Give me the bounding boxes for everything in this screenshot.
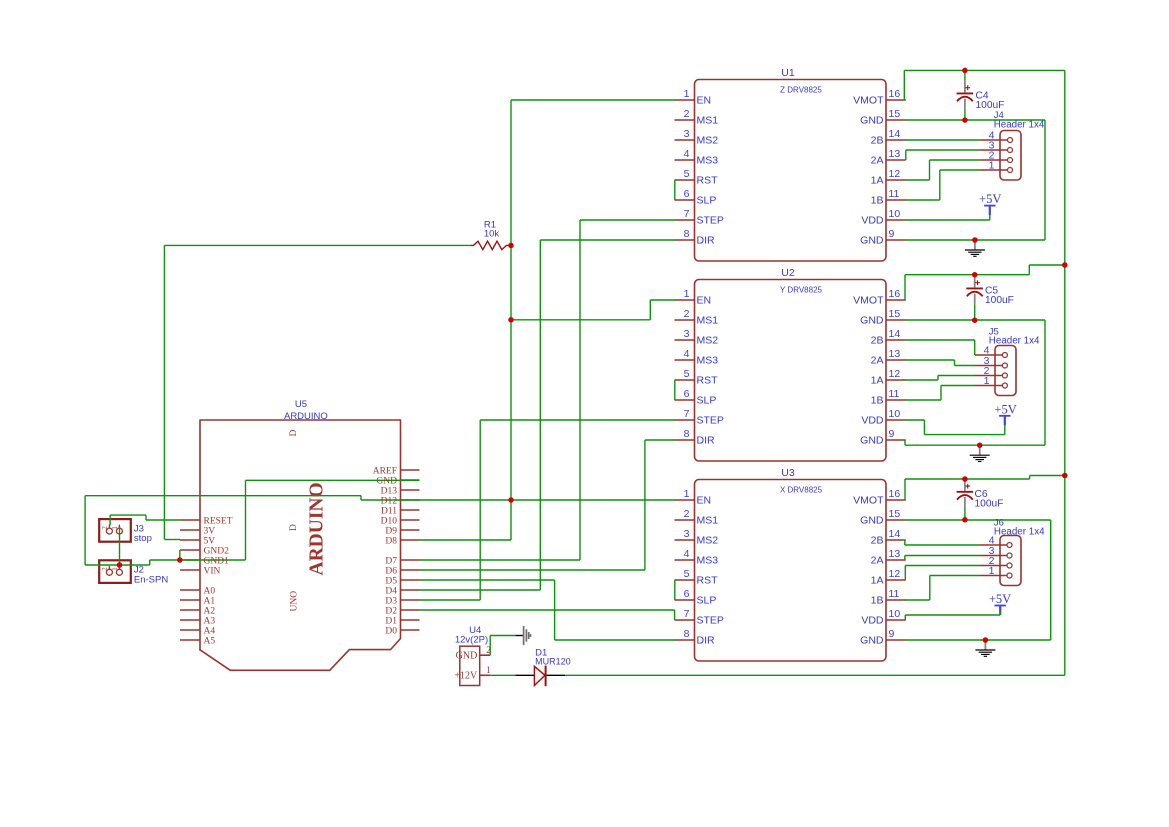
svg-text:A4: A4 [204, 626, 216, 636]
svg-text:7: 7 [684, 208, 690, 220]
svg-text:A1: A1 [204, 596, 216, 606]
svg-text:U5: U5 [295, 399, 307, 410]
svg-text:stop: stop [134, 533, 152, 544]
svg-text:10: 10 [889, 608, 901, 620]
svg-text:VDD: VDD [861, 615, 884, 627]
svg-text:1A: 1A [871, 375, 884, 387]
svg-text:GND: GND [860, 635, 884, 647]
svg-text:+12V: +12V [454, 671, 478, 682]
svg-text:9: 9 [889, 628, 895, 640]
svg-text:GND: GND [860, 315, 884, 327]
svg-text:6: 6 [684, 188, 690, 200]
svg-text:2: 2 [684, 508, 690, 520]
svg-text:+5V: +5V [989, 592, 1011, 606]
svg-text:8: 8 [684, 428, 690, 440]
svg-text:14: 14 [889, 328, 901, 340]
svg-text:3V: 3V [204, 526, 216, 536]
svg-text:D6: D6 [385, 566, 397, 576]
svg-text:1: 1 [684, 288, 690, 300]
svg-text:1: 1 [684, 488, 690, 500]
svg-text:DIR: DIR [697, 635, 716, 647]
svg-text:12: 12 [889, 168, 901, 180]
svg-text:EN: EN [697, 495, 712, 507]
svg-text:6: 6 [684, 388, 690, 400]
svg-text:2: 2 [101, 567, 109, 571]
svg-text:VDD: VDD [861, 215, 884, 227]
svg-text:4: 4 [684, 348, 690, 360]
svg-text:D1: D1 [385, 616, 397, 626]
svg-text:14: 14 [889, 528, 901, 540]
svg-text:MS1: MS1 [697, 315, 719, 327]
svg-text:SLP: SLP [697, 195, 717, 207]
svg-text:2: 2 [684, 308, 690, 320]
svg-text:STEP: STEP [697, 215, 724, 227]
svg-text:D13: D13 [381, 486, 398, 496]
svg-text:+5V: +5V [979, 192, 1001, 206]
svg-text:15: 15 [889, 308, 901, 320]
svg-text:1: 1 [684, 88, 690, 100]
svg-text:4: 4 [684, 548, 690, 560]
svg-text:VMOT: VMOT [853, 295, 884, 307]
svg-text:X DRV8825: X DRV8825 [780, 486, 823, 495]
svg-text:RESET: RESET [204, 516, 233, 526]
svg-text:EN: EN [697, 295, 712, 307]
svg-text:MS2: MS2 [697, 135, 719, 147]
svg-text:7: 7 [684, 608, 690, 620]
svg-text:D2: D2 [385, 606, 397, 616]
svg-text:A3: A3 [204, 616, 216, 626]
svg-text:1: 1 [111, 567, 119, 571]
svg-text:1: 1 [984, 375, 990, 387]
svg-text:15: 15 [889, 508, 901, 520]
svg-text:UNO: UNO [290, 591, 300, 612]
svg-text:STEP: STEP [697, 615, 724, 627]
svg-text:D5: D5 [385, 576, 397, 586]
svg-text:VIN: VIN [204, 566, 221, 576]
svg-text:GND: GND [860, 515, 884, 527]
svg-text:GND1: GND1 [204, 556, 230, 566]
svg-text:16: 16 [889, 88, 901, 100]
svg-text:MS1: MS1 [697, 115, 719, 127]
svg-text:5V: 5V [204, 536, 216, 546]
svg-text:U1: U1 [781, 67, 795, 79]
svg-text:1B: 1B [871, 395, 884, 407]
svg-text:3: 3 [684, 128, 690, 140]
svg-text:Y DRV8825: Y DRV8825 [780, 286, 823, 295]
svg-text:2A: 2A [871, 355, 884, 367]
svg-text:5: 5 [684, 168, 690, 180]
svg-text:En-SPN: En-SPN [134, 574, 168, 585]
svg-text:10: 10 [889, 208, 901, 220]
svg-text:GND: GND [376, 476, 397, 486]
svg-text:100uF: 100uF [975, 498, 1004, 509]
svg-text:MS2: MS2 [697, 535, 719, 547]
svg-text:GND: GND [860, 235, 884, 247]
svg-text:VDD: VDD [861, 415, 884, 427]
svg-text:Header 1x4: Header 1x4 [989, 336, 1040, 347]
svg-text:MS1: MS1 [697, 515, 719, 527]
svg-text:1: 1 [989, 565, 995, 577]
svg-text:RST: RST [697, 375, 719, 387]
svg-text:2: 2 [684, 108, 690, 120]
svg-text:A2: A2 [204, 606, 216, 616]
svg-text:15: 15 [889, 108, 901, 120]
svg-text:1A: 1A [871, 175, 884, 187]
svg-text:GND: GND [860, 115, 884, 127]
svg-text:Header 1x4: Header 1x4 [994, 527, 1045, 538]
svg-text:16: 16 [889, 488, 901, 500]
svg-text:13: 13 [889, 348, 901, 360]
svg-text:D9: D9 [385, 526, 397, 536]
svg-text:D11: D11 [381, 506, 397, 516]
svg-text:A0: A0 [204, 586, 216, 596]
svg-text:11: 11 [889, 388, 900, 400]
svg-text:DIR: DIR [697, 235, 716, 247]
svg-text:9: 9 [889, 428, 895, 440]
svg-text:MS3: MS3 [697, 555, 719, 567]
svg-text:12: 12 [889, 568, 901, 580]
svg-text:2B: 2B [871, 335, 884, 347]
svg-text:U2: U2 [781, 267, 795, 279]
svg-text:2: 2 [101, 526, 109, 530]
svg-text:U3: U3 [781, 467, 795, 479]
svg-text:2A: 2A [871, 155, 884, 167]
svg-text:MUR120: MUR120 [535, 657, 571, 667]
svg-text:VMOT: VMOT [853, 495, 884, 507]
svg-text:RST: RST [697, 575, 719, 587]
svg-text:2B: 2B [871, 135, 884, 147]
svg-text:1B: 1B [871, 595, 884, 607]
svg-text:6: 6 [684, 588, 690, 600]
svg-text:1: 1 [989, 160, 995, 172]
svg-text:5: 5 [684, 568, 690, 580]
svg-text:8: 8 [684, 228, 690, 240]
svg-text:1A: 1A [871, 575, 884, 587]
svg-text:MS2: MS2 [697, 335, 719, 347]
svg-text:D8: D8 [385, 536, 397, 546]
svg-text:Z DRV8825: Z DRV8825 [780, 86, 822, 95]
svg-text:D12: D12 [381, 496, 398, 506]
svg-text:3: 3 [684, 528, 690, 540]
svg-text:MS3: MS3 [697, 155, 719, 167]
svg-text:D: D [289, 524, 299, 531]
svg-text:3: 3 [684, 328, 690, 340]
svg-text:14: 14 [889, 128, 901, 140]
svg-text:DIR: DIR [697, 435, 716, 447]
svg-text:1: 1 [111, 526, 119, 530]
svg-text:13: 13 [889, 148, 901, 160]
svg-text:+5V: +5V [994, 402, 1016, 416]
svg-text:RST: RST [697, 175, 719, 187]
svg-text:D10: D10 [381, 516, 398, 526]
svg-text:10k: 10k [484, 229, 500, 240]
svg-text:2: 2 [486, 645, 491, 655]
svg-text:EN: EN [697, 95, 712, 107]
svg-text:A5: A5 [204, 636, 216, 646]
svg-text:D4: D4 [385, 586, 397, 596]
svg-text:SLP: SLP [697, 595, 717, 607]
svg-text:12v(2P): 12v(2P) [455, 634, 488, 645]
svg-text:D: D [289, 430, 299, 437]
svg-text:2B: 2B [871, 535, 884, 547]
svg-text:10: 10 [889, 408, 901, 420]
svg-text:Header 1x4: Header 1x4 [994, 120, 1045, 131]
svg-text:7: 7 [684, 408, 690, 420]
svg-text:GND: GND [860, 435, 884, 447]
svg-text:VMOT: VMOT [853, 95, 884, 107]
svg-text:100uF: 100uF [976, 100, 1005, 111]
svg-text:1B: 1B [871, 195, 884, 207]
svg-text:SLP: SLP [697, 395, 717, 407]
svg-text:GND2: GND2 [204, 546, 230, 556]
svg-text:11: 11 [889, 588, 900, 600]
svg-text:GND: GND [456, 651, 478, 662]
svg-text:5: 5 [684, 368, 690, 380]
svg-text:16: 16 [889, 288, 901, 300]
svg-text:1: 1 [486, 665, 491, 675]
svg-text:100uF: 100uF [985, 295, 1014, 306]
svg-text:13: 13 [889, 548, 901, 560]
svg-text:STEP: STEP [697, 415, 724, 427]
svg-text:8: 8 [684, 628, 690, 640]
svg-text:11: 11 [889, 188, 900, 200]
svg-text:MS3: MS3 [697, 355, 719, 367]
svg-text:ARDUINO: ARDUINO [284, 411, 328, 422]
svg-text:D3: D3 [385, 596, 397, 606]
svg-text:D0: D0 [385, 626, 397, 636]
svg-text:D7: D7 [385, 556, 397, 566]
svg-text:4: 4 [684, 148, 690, 160]
svg-text:AREF: AREF [373, 466, 397, 476]
svg-text:12: 12 [889, 368, 901, 380]
svg-text:2A: 2A [871, 555, 884, 567]
svg-text:9: 9 [889, 228, 895, 240]
